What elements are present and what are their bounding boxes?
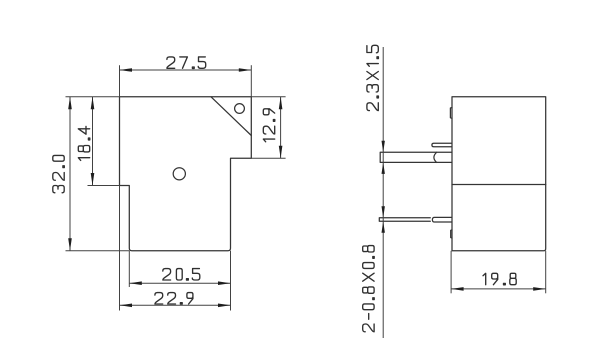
text 27.5 [167,57,206,69]
left edge bump upper [450,108,452,119]
dim line 32.0 [69,97,71,251]
pin dim extension line [382,47,384,338]
arrows 32.0 [68,97,72,110]
text 20.5 [163,269,200,281]
arrows 20.5 [129,281,142,285]
center hole [173,168,185,180]
arrows 12.9 [279,97,283,110]
arrows 27.5 [120,68,133,72]
dim line 22.9 [120,304,231,306]
dim line 27.5 [120,69,252,71]
top pin blade [380,152,452,162]
text 32.0 (rotated) [53,155,65,192]
ext line 27.5 right [250,65,252,97]
left edge bump lower [451,230,452,238]
ext line 12.9 top [251,96,285,98]
text 22.9 [155,293,193,305]
text 2-0.8X0.8 (rotated) [363,246,375,332]
dim line 19.8 [451,288,546,290]
text 19.8 [483,273,516,285]
ext line bottom 32.0 [66,250,130,252]
ext line 18.4 bottom [88,185,120,187]
ext line 27.5 left / 22.9 left (x=119.5) [119,65,121,310]
arrows 22.9 [120,304,133,308]
ext line top (32.0/18.4) [66,96,120,98]
left view body outline [120,97,252,251]
top pin bend arc [434,152,437,162]
top pin small tab [432,143,452,147]
bottom pin [379,218,430,221]
chamfer corner line [211,97,251,136]
ext line 20.5/22.9 right [230,251,232,311]
bottom pin tab [432,217,452,222]
text 18.4 (rotated) [78,126,90,160]
ext line 19.8 right [545,251,547,293]
ext line 20.5 left [128,251,130,287]
ext line 12.9 bottom [251,157,285,159]
text 2.3X1.5 (rotated) [367,45,379,110]
right view body outline [452,97,546,251]
arrows 18.4 [91,97,95,110]
dim line 18.4 [92,97,94,186]
text 12.9 (rotated) [263,109,275,142]
ext line 19.8 left [450,251,452,293]
arrows pin 2.3x1.5 [382,141,385,153]
arrows pin 0.8 [382,206,385,218]
arrows 19.8 [451,287,464,291]
corner hole [235,104,245,114]
right view cover seam line [452,184,546,186]
dim line 12.9 [280,97,282,158]
dim line 20.5 [129,282,230,284]
